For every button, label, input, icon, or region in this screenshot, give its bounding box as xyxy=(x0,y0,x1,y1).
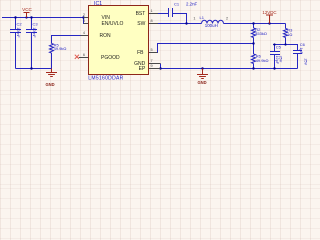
svg-text:1: 1 xyxy=(193,17,195,21)
svg-text:2: 2 xyxy=(83,13,85,17)
svg-text:C2: C2 xyxy=(17,21,23,26)
svg-text:10µF: 10µF xyxy=(275,56,279,65)
svg-text:9: 9 xyxy=(151,64,153,68)
svg-text:RON: RON xyxy=(100,33,112,39)
svg-text:3: 3 xyxy=(83,19,85,23)
svg-text:7: 7 xyxy=(151,59,153,63)
svg-text:PGOOD: PGOOD xyxy=(101,55,120,61)
svg-text:SW: SW xyxy=(137,21,145,27)
svg-text:100nF: 100nF xyxy=(32,27,36,38)
svg-text:6: 6 xyxy=(83,53,85,57)
svg-text:IC1: IC1 xyxy=(94,1,102,7)
svg-text:100nF: 100nF xyxy=(16,27,20,38)
svg-text:C5: C5 xyxy=(276,45,282,50)
svg-text:C1: C1 xyxy=(174,1,180,6)
svg-text:GND: GND xyxy=(45,82,54,87)
svg-text:2: 2 xyxy=(226,17,228,21)
svg-text:1Ω: 1Ω xyxy=(287,32,292,37)
svg-text:FB: FB xyxy=(137,50,144,56)
svg-text:49.9kΩ: 49.9kΩ xyxy=(54,46,67,51)
svg-text:4: 4 xyxy=(83,31,85,35)
svg-text:453kΩ: 453kΩ xyxy=(255,31,267,36)
svg-text:25V: 25V xyxy=(303,59,307,66)
svg-text:49.9kΩ: 49.9kΩ xyxy=(256,58,269,63)
svg-text:GND: GND xyxy=(197,80,206,85)
svg-text:2.2nF: 2.2nF xyxy=(186,1,198,6)
svg-text:L1: L1 xyxy=(200,15,205,20)
svg-text:LM5160DDAR: LM5160DDAR xyxy=(88,75,123,81)
svg-text:12VDC: 12VDC xyxy=(262,10,276,15)
svg-text:VCC: VCC xyxy=(22,7,32,12)
svg-text:1µF: 1µF xyxy=(299,48,303,55)
svg-text:1: 1 xyxy=(151,9,153,13)
svg-text:BST: BST xyxy=(136,11,146,17)
svg-text:EN/UVLO: EN/UVLO xyxy=(102,21,124,27)
svg-text:8: 8 xyxy=(151,19,153,23)
svg-text:EP: EP xyxy=(139,66,146,72)
svg-text:25V: 25V xyxy=(278,56,282,63)
svg-text:100uH: 100uH xyxy=(205,23,218,28)
svg-text:C6: C6 xyxy=(300,42,306,47)
svg-text:C3: C3 xyxy=(33,21,39,26)
svg-text:5: 5 xyxy=(151,48,153,52)
